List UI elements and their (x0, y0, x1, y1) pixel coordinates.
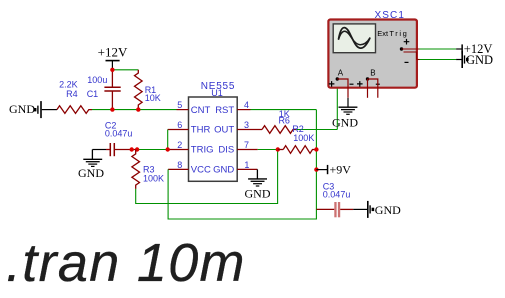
svg-text:100u: 100u (87, 75, 107, 85)
pin 8 lead VCC (168, 168, 188, 170)
junction dot at R1/rail (136, 107, 140, 111)
power +12V supply symbol (98, 45, 128, 70)
scope trigger minus bracket (404, 52, 417, 60)
wire DIS green segment (258, 149, 278, 151)
wire RST to top of +9V rail (251, 109, 317, 111)
svg-text:C1: C1 (87, 89, 99, 99)
resistor R6 (262, 109, 296, 133)
junction dot at C1/rail (110, 107, 114, 111)
svg-text:GND: GND (78, 166, 104, 180)
terminal dots (336, 77, 339, 80)
capacitor C2 (105, 121, 137, 157)
wire GND to R4 (black) (42, 109, 57, 111)
resistor R1 (135, 70, 161, 110)
capacitor C1 (87, 70, 121, 110)
wire R3 bottom to DIS junction (down, right, up) (136, 150, 278, 204)
junction dot C2 (130, 147, 134, 151)
node GND (left on-page connector) (9, 101, 42, 118)
node GND (right on-page connector) (461, 51, 493, 68)
pin 5 lead CNT (177, 109, 189, 111)
svg-text:0.047u: 0.047u (323, 189, 351, 199)
svg-text:3: 3 (244, 120, 249, 130)
node GND (right of C3 on-page connector) (367, 201, 401, 218)
svg-text:GND: GND (9, 102, 35, 116)
capacitor C3 (316, 182, 353, 218)
scope B+ stub (367, 79, 369, 98)
svg-text:8: 8 (177, 160, 182, 170)
svg-text:THR: THR (191, 125, 211, 136)
pin 3 lead OUT (237, 129, 262, 131)
svg-text:A: A (338, 68, 344, 77)
ground (chip pin1 earth symbol) (245, 169, 271, 200)
svg-text:+9V: +9V (330, 162, 352, 176)
svg-text:GND: GND (375, 203, 401, 217)
junction dot DIS (276, 147, 280, 151)
svg-text:CNT: CNT (191, 105, 211, 116)
svg-text:GND: GND (332, 116, 358, 130)
svg-text:10K: 10K (145, 93, 161, 103)
ground (C2 left earth symbol) (78, 150, 104, 181)
op-amp U1 NE555 box (189, 81, 238, 182)
oscilloscope XSC1 (328, 10, 417, 88)
resistor R3 (132, 150, 164, 189)
wire scope - terminal to GND (red/green/black) (417, 59, 420, 61)
wire ground to C2 (black) (92, 149, 106, 151)
wire rail (GND rail to CNT pin) (92, 109, 177, 111)
ground (scope A- earth symbol) (332, 107, 358, 130)
resistor R2 (278, 124, 317, 153)
svg-text:VCC: VCC (191, 165, 211, 176)
wire THR down to TRIG node (167, 130, 169, 150)
pin 7 lead DIS (237, 149, 258, 151)
svg-text:4: 4 (244, 100, 249, 110)
wire OUT to scope A (296, 129, 337, 131)
wire scope A- stub (red) then black to ground (337, 79, 348, 98)
svg-text:B: B (370, 68, 375, 77)
svg-text:5: 5 (177, 100, 182, 110)
svg-text:GND: GND (245, 187, 271, 201)
svg-text:OUT: OUT (214, 125, 234, 136)
svg-text:6: 6 (177, 120, 182, 130)
plus/minus marks (329, 81, 335, 87)
junction dot at +12V node (110, 68, 114, 72)
pin 4 lead RST (237, 109, 250, 111)
pin 1 lead GND (237, 168, 257, 170)
junction dot TRIG (166, 147, 170, 151)
svg-text:U1: U1 (211, 88, 223, 98)
svg-text:RST: RST (215, 105, 234, 116)
wire +12V node to R1 top (112, 69, 138, 71)
svg-text:R6: R6 (278, 115, 290, 125)
svg-text:GND: GND (466, 53, 493, 67)
svg-text:0.047u: 0.047u (105, 129, 133, 139)
wire TRIG node left to C2/R3 (137, 149, 168, 151)
svg-text:100K: 100K (143, 174, 164, 184)
junction dot R3 top (135, 147, 139, 151)
svg-text:Trig: Trig (389, 29, 408, 38)
svg-text:Ext: Ext (377, 29, 389, 38)
node +12V (right on-page connector) (461, 42, 492, 56)
pin 6 lead THR (168, 129, 189, 131)
svg-text:R4: R4 (66, 89, 78, 99)
junction dot R2 right (314, 147, 318, 151)
pin 2 lead TRIG (168, 149, 189, 151)
svg-text:2: 2 (177, 140, 182, 150)
wire scope A+ down (336, 79, 338, 130)
svg-text:+12V: +12V (98, 45, 128, 60)
svg-text:DIS: DIS (218, 145, 234, 156)
resistor R4 (57, 79, 92, 113)
svg-text:1: 1 (244, 160, 249, 170)
svg-text:2.2K: 2.2K (59, 79, 78, 89)
scope B- stub (368, 79, 378, 98)
svg-text:7: 7 (244, 140, 249, 150)
svg-text:GND: GND (213, 165, 234, 176)
svg-text:100K: 100K (293, 133, 314, 143)
wire C3 to GND connector (black) (353, 208, 367, 210)
svg-text:TRIG: TRIG (191, 145, 214, 156)
wire scope + terminal to +12V (red/green/black) (402, 48, 420, 50)
wire VCC to bottom rail (down, right) (168, 110, 316, 219)
svg-text:.tran 10m: .tran 10m (6, 233, 246, 293)
node +9V on-page connector (314, 162, 351, 176)
